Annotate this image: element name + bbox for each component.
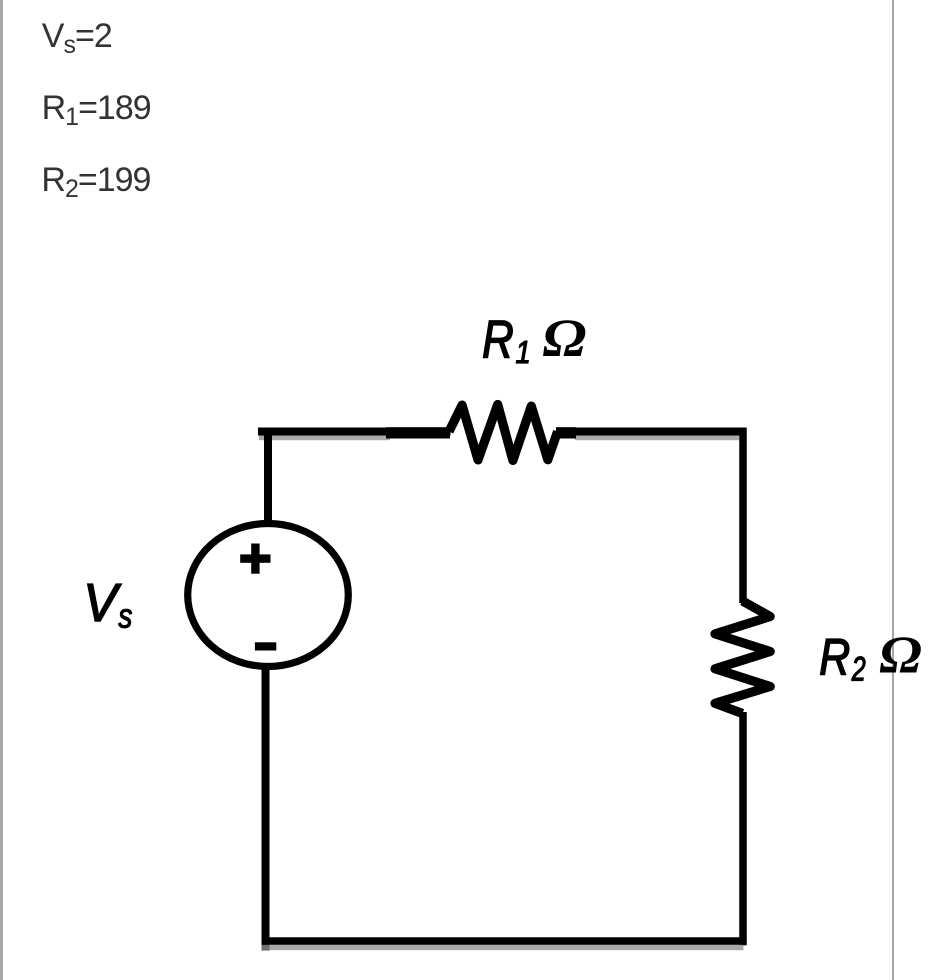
svg-text:R: R (482, 311, 514, 370)
svg-text:Ω: Ω (879, 625, 922, 684)
svg-text:Ω: Ω (543, 308, 587, 368)
svg-text:V: V (83, 574, 121, 633)
svg-text:1: 1 (516, 334, 531, 370)
svg-text:s: s (118, 597, 132, 635)
svg-text:R: R (819, 629, 850, 686)
svg-text:2: 2 (851, 650, 866, 688)
